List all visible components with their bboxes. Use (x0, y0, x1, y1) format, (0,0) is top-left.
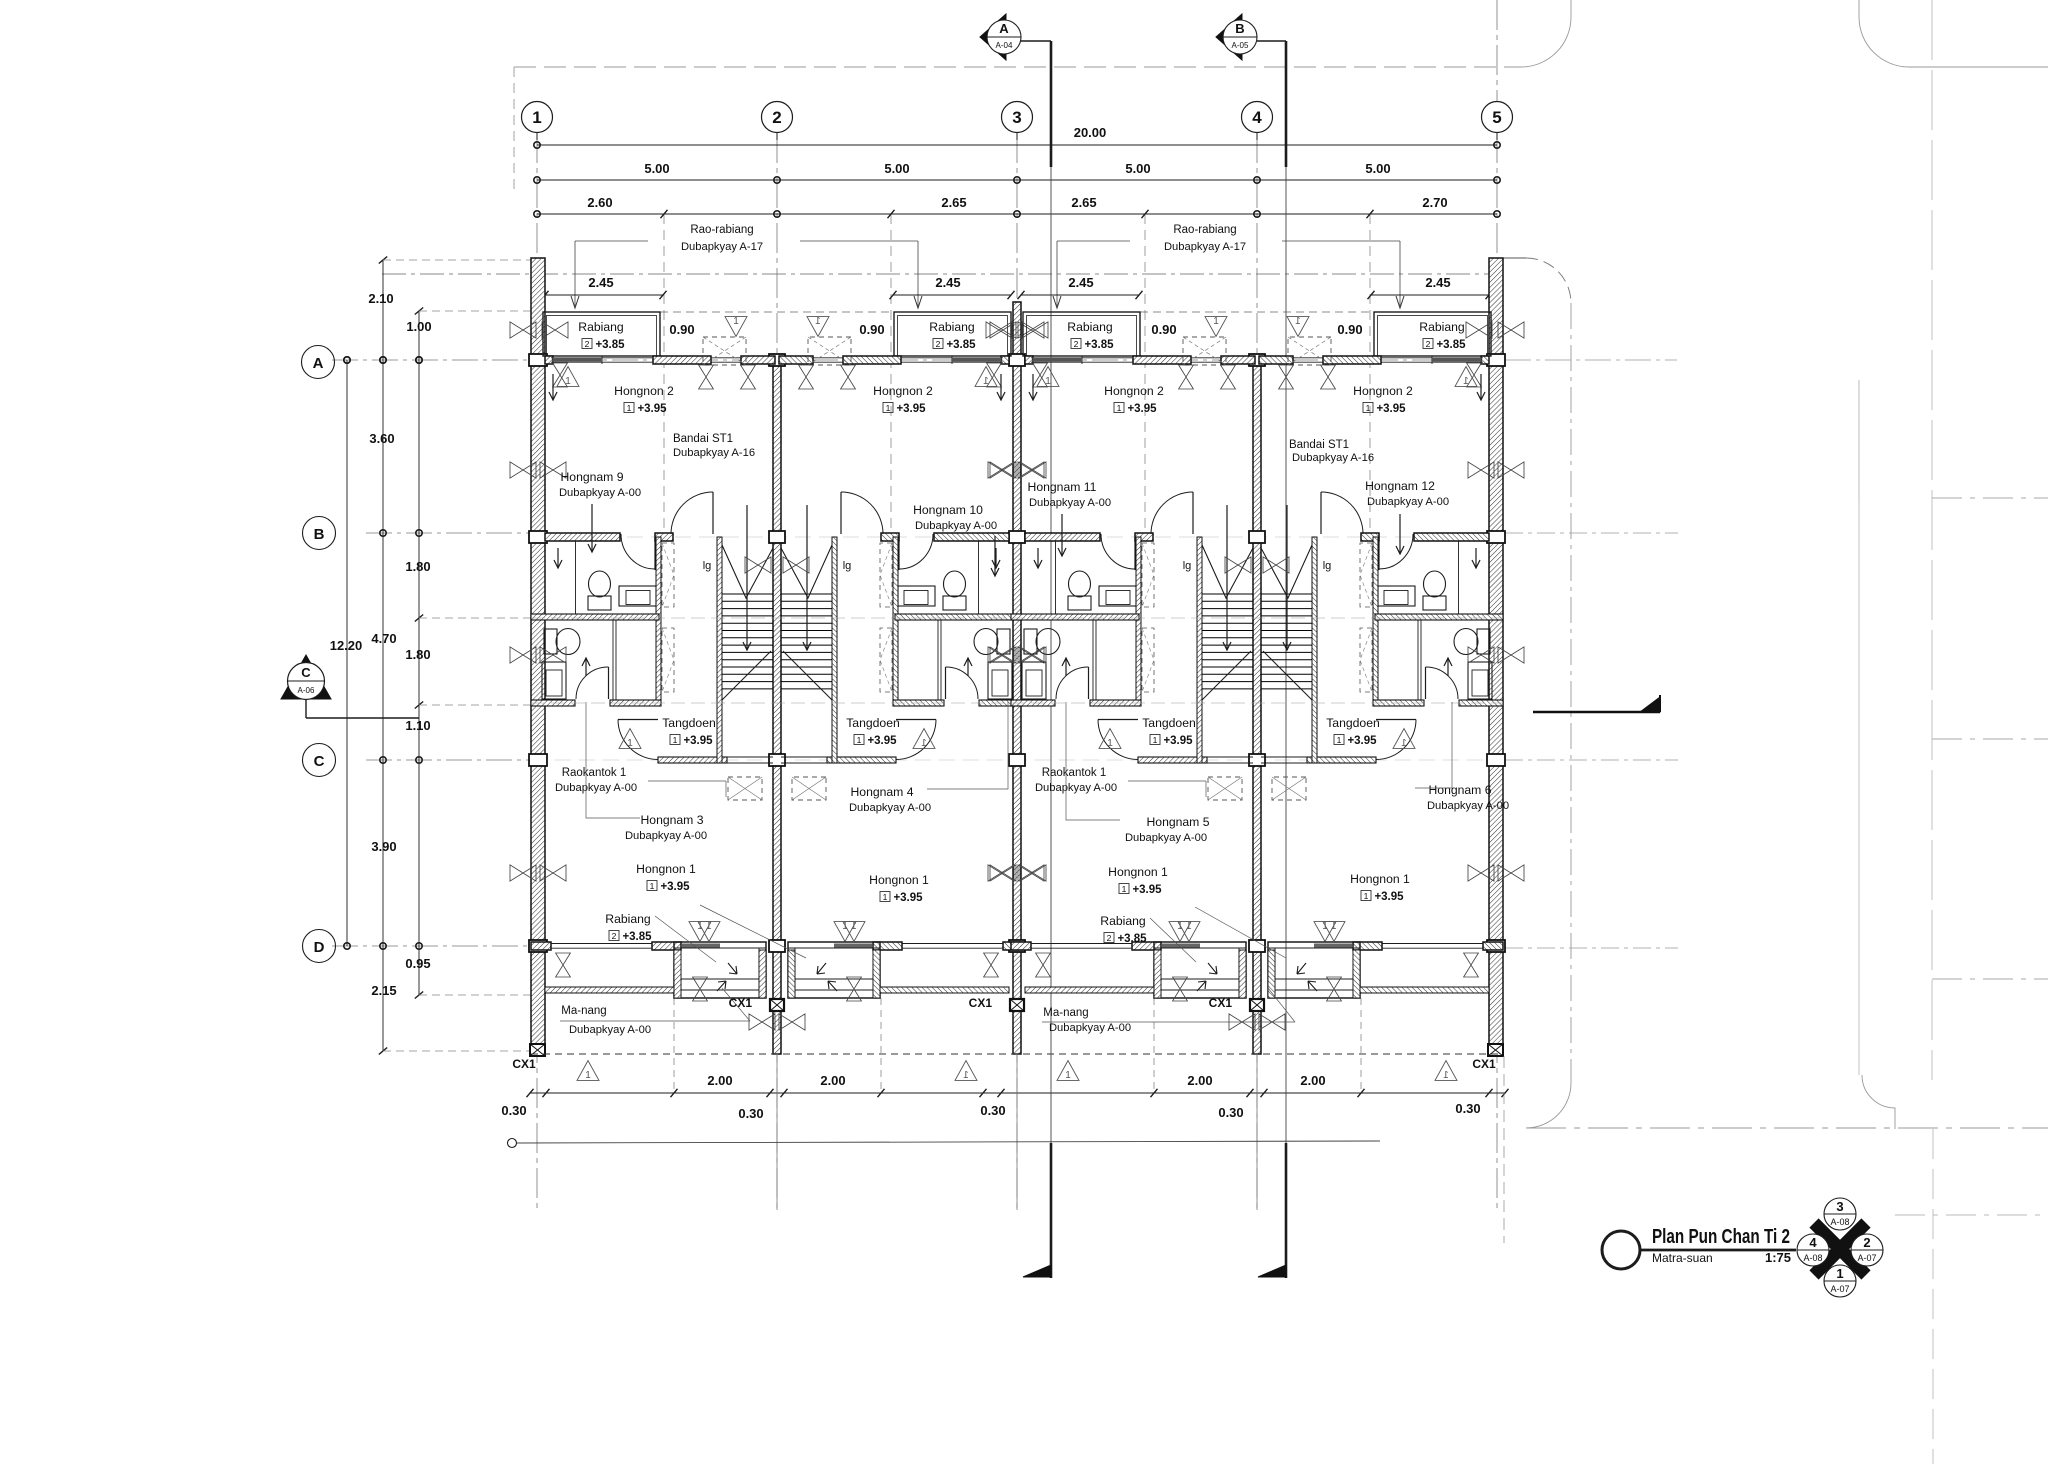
bath divider reference dashed line (531, 617, 1503, 619)
svg-text:+3.95: +3.95 (1132, 884, 1162, 896)
svg-text:Ma-nang: Ma-nang (561, 1005, 606, 1017)
unit2 stair break lines (781, 545, 832, 598)
road horizontal stubs far right (1932, 497, 2048, 499)
unit1 rear balcony (674, 942, 766, 998)
svg-text:Rabiang: Rabiang (1100, 914, 1145, 928)
unit 1 geometry (510, 312, 856, 1081)
svg-text:2.70: 2.70 (1422, 195, 1447, 210)
balcony rail dashed continuation front (660, 311, 895, 313)
unit2 stair side wall (832, 537, 837, 763)
unit1 balcony slope arrows (728, 963, 737, 974)
right wall extension below (1503, 1056, 1505, 1243)
grid bubble 3 (1002, 102, 1033, 133)
svg-text:Matra-suan: Matra-suan (1652, 1251, 1713, 1265)
kerb line right of building top (1503, 257, 1526, 259)
svg-text:1: 1 (886, 403, 891, 413)
unit1 triangle markers (557, 367, 579, 387)
svg-text:2: 2 (1863, 1235, 1870, 1250)
unit 2 geometry (mirror) (698, 312, 1044, 1081)
svg-text:0.95: 0.95 (405, 956, 430, 971)
extension dashed verticals from balconies (673, 998, 675, 1093)
svg-text:CX1: CX1 (512, 1057, 536, 1071)
unit4 stair treads (1261, 593, 1312, 595)
road vertical second far right (1931, 0, 1933, 1080)
site boundary circle and line bottom (508, 1139, 517, 1148)
svg-text:Hongnam 11: Hongnam 11 (1028, 480, 1097, 494)
unit1 lower bath fixtures (544, 629, 557, 654)
svg-text:Rabiang: Rabiang (929, 320, 974, 334)
unit3 window bowties (990, 462, 1016, 478)
unit1 corridor-bedroom1 door (618, 719, 658, 721)
svg-text:2: 2 (585, 339, 590, 349)
svg-text:4: 4 (1809, 1235, 1817, 1250)
unit1 front balcony (543, 312, 660, 356)
unit4 closet dashed doors (1360, 543, 1372, 607)
svg-text:C: C (301, 665, 311, 680)
unit4 divider wall (1375, 614, 1503, 620)
unit3 window in wall A near AC (1191, 357, 1221, 359)
svg-text:Tangdoen: Tangdoen (1326, 716, 1380, 730)
unit1 upper bath partition and fixtures (575, 541, 577, 614)
svg-text:Rao-rabiang: Rao-rabiang (1173, 224, 1236, 236)
svg-text:Hongnon 2: Hongnon 2 (614, 384, 674, 398)
svg-text:2.00: 2.00 (707, 1073, 732, 1088)
svg-text:Hongnam 10: Hongnam 10 (913, 503, 983, 517)
svg-text:1: 1 (733, 316, 739, 327)
svg-text:1: 1 (1337, 735, 1342, 745)
grid bubble 1 (522, 102, 553, 133)
svg-text:+3.95: +3.95 (637, 403, 667, 415)
unit2 wall B segments (934, 533, 1009, 541)
dimension line 20.00 (537, 144, 1497, 146)
unit3 void dashed box below stair (1208, 777, 1242, 800)
unit4 stair direction arrow (1286, 505, 1288, 650)
unit2 corridor wall segments (979, 700, 1023, 706)
unit3 partition bath-closet (1092, 620, 1094, 700)
unit3 wall A segments (1025, 356, 1033, 364)
svg-text:Hongnam 6: Hongnam 6 (1428, 783, 1491, 797)
svg-text:1.00: 1.00 (406, 319, 431, 334)
svg-text:0.90: 0.90 (669, 322, 694, 337)
unit1 stair direction arrow (746, 505, 748, 650)
unit4 AC ledge dashed box (1288, 337, 1331, 365)
unit3 balcony slope arrows (1208, 963, 1217, 974)
bath5 leader (1066, 702, 1120, 820)
section marker C (A-06) left (281, 655, 331, 699)
left dim extension dashes (383, 259, 531, 261)
svg-text:+3.85: +3.85 (1117, 933, 1147, 945)
svg-text:1: 1 (1401, 738, 1407, 749)
svg-text:Dubapkyay A-16: Dubapkyay A-16 (673, 447, 755, 459)
unit1 bath wall vertical (656, 537, 661, 702)
unit2 window bowties (1018, 462, 1044, 478)
grid line 3 (vertical center line) (1016, 133, 1018, 1210)
svg-text:12.20: 12.20 (330, 638, 363, 653)
unit1 divider wall (531, 614, 659, 620)
unit2 lower bath door arc (945, 667, 947, 699)
svg-text:5.00: 5.00 (644, 161, 669, 176)
svg-text:2: 2 (1426, 339, 1431, 349)
svg-text:0.90: 0.90 (1337, 322, 1362, 337)
svg-text:0.30: 0.30 (980, 1103, 1005, 1118)
svg-text:1.80: 1.80 (405, 647, 430, 662)
kerb vertical dash-dot right of building (1570, 303, 1572, 1083)
svg-text:Dubapkyay A-00: Dubapkyay A-00 (559, 487, 641, 499)
bath4 leader (927, 702, 1008, 789)
svg-text:Tangdoen: Tangdoen (846, 716, 900, 730)
svg-text:1: 1 (1122, 884, 1127, 894)
svg-text:B: B (1235, 21, 1244, 36)
svg-text:CX1: CX1 (729, 996, 753, 1010)
unit1 window bowties (510, 462, 536, 478)
dimension row 2.45 / 0.90 (545, 294, 663, 296)
unit4 triangle markers (1455, 367, 1477, 387)
unit2 void dashed box below stair (792, 777, 826, 800)
unit4 window in wall A (balcony door) (1381, 357, 1483, 359)
unit4 corridor wall segments (1459, 700, 1503, 706)
svg-text:1: 1 (650, 881, 655, 891)
svg-text:+3.85: +3.85 (1436, 339, 1466, 351)
unit1 void dashed box below stair (728, 777, 762, 800)
unit3 closet dashed doors (1142, 543, 1154, 607)
svg-text:2.65: 2.65 (1071, 195, 1096, 210)
unit1 bath9 door arc at wall B (654, 534, 656, 570)
svg-text:B: B (314, 526, 325, 543)
svg-text:lg: lg (843, 560, 852, 572)
svg-text:1: 1 (1186, 921, 1192, 932)
unit1 bench wall (545, 987, 674, 993)
unit1 stair side wall (717, 537, 722, 763)
unit1 AC ledge dashed box (703, 337, 746, 365)
road vertical line far right (1858, 380, 1860, 1075)
grid line 4 (vertical center line) (1256, 133, 1258, 1210)
svg-text:5.00: 5.00 (1365, 161, 1390, 176)
svg-text:Hongnam 4: Hongnam 4 (850, 785, 913, 799)
svg-text:3.90: 3.90 (371, 839, 396, 854)
unit2 bath9 door arc at wall B (898, 534, 900, 570)
svg-text:Bandai ST1: Bandai ST1 (673, 433, 733, 445)
svg-text:4.70: 4.70 (371, 631, 396, 646)
svg-text:Hongnon 1: Hongnon 1 (636, 862, 696, 876)
corridor reference dashed line (531, 702, 1503, 704)
unit1 wall D segments (531, 942, 551, 950)
unit1 bedroom ventilation arrow (552, 374, 554, 400)
unit2 balcony slope arrows (817, 963, 826, 974)
unit3 bath9 door arc at wall B (1134, 534, 1136, 570)
svg-text:1: 1 (1836, 1266, 1843, 1281)
unit2 divider wall (895, 614, 1023, 620)
svg-text:A-07: A-07 (1830, 1284, 1849, 1294)
unit3 divider wall (1011, 614, 1139, 620)
svg-text:1: 1 (706, 921, 712, 932)
svg-text:2.00: 2.00 (820, 1073, 845, 1088)
unit4 balcony slope arrows (1297, 963, 1306, 974)
svg-text:1: 1 (1213, 316, 1219, 327)
unit3 upper bath partition and fixtures (1055, 541, 1057, 614)
svg-text:3: 3 (1836, 1199, 1843, 1214)
svg-text:Dubapkyay A-00: Dubapkyay A-00 (1427, 800, 1509, 812)
svg-text:1: 1 (1463, 376, 1469, 387)
unit1 stair break lines (722, 545, 773, 598)
unit3 lower bath door arc (1088, 667, 1090, 699)
svg-text:Bandai ST1: Bandai ST1 (1289, 439, 1349, 451)
unit2 wall D segments (1003, 942, 1023, 950)
svg-text:1: 1 (627, 403, 632, 413)
svg-text:+3.95: +3.95 (1127, 403, 1157, 415)
bath11 leader arrow (1061, 514, 1063, 556)
kerb bottom-right corner arc to road (1526, 1083, 1571, 1128)
rear balcony leaders unit3 (1150, 918, 1196, 962)
grid bubble 2 (762, 102, 793, 133)
bottom dim line 2.00 row (530, 1092, 1505, 1094)
driveway mark right side (1533, 711, 1660, 713)
svg-text:1: 1 (921, 738, 927, 749)
row line B faint interior (531, 536, 1503, 538)
unit3 bedroom ventilation arrow (1032, 374, 1034, 400)
unit4 bedroom ventilation arrow (1480, 374, 1482, 400)
svg-text:0.30: 0.30 (738, 1106, 763, 1121)
unit3 stair direction arrow (1226, 505, 1228, 650)
svg-text:20.00: 20.00 (1074, 125, 1107, 140)
svg-text:1: 1 (585, 1070, 591, 1081)
left dim vertical line 12.20 (346, 360, 348, 946)
unit1 wall A segments (545, 356, 553, 364)
svg-text:2: 2 (1074, 339, 1079, 349)
unit4 stair break lines (1261, 545, 1312, 598)
svg-text:lg: lg (1183, 560, 1192, 572)
svg-text:+3.95: +3.95 (1163, 735, 1193, 747)
dimension line 5.00 row (537, 179, 1497, 181)
svg-text:+3.95: +3.95 (896, 403, 926, 415)
svg-text:1: 1 (1364, 891, 1369, 901)
unit2 lower bath fixtures (997, 629, 1010, 654)
kerb corner arc right of building (1526, 258, 1571, 303)
svg-text:2.45: 2.45 (588, 275, 613, 290)
unit3 wall B segments (1025, 533, 1100, 541)
unit4 lower bath door arc (1425, 667, 1427, 699)
svg-text:Plan Pun Chan Ti 2: Plan Pun Chan Ti 2 (1652, 1226, 1790, 1248)
row line C faint interior (531, 759, 1503, 761)
unit4 wall A segments (1481, 356, 1489, 364)
road kerb corner arc top-right (1859, 0, 2048, 67)
unit3 front balcony (1023, 312, 1140, 356)
svg-text:1: 1 (1366, 403, 1371, 413)
unit4 partition bath-closet (1420, 620, 1422, 700)
row line C dash-dot stubs (366, 759, 531, 761)
svg-text:2: 2 (936, 339, 941, 349)
unit3 corridor wall segments (1011, 700, 1055, 706)
unit3 bench wall (1025, 987, 1154, 993)
svg-text:Hongnon 2: Hongnon 2 (873, 384, 933, 398)
road line bottom right (1526, 1127, 2048, 1129)
svg-text:1: 1 (627, 738, 633, 749)
svg-text:1.80: 1.80 (405, 559, 430, 574)
left dim vertical line main (382, 260, 384, 1051)
svg-text:1: 1 (983, 376, 989, 387)
svg-text:Ma-nang: Ma-nang (1043, 1007, 1088, 1019)
left exterior wall (531, 258, 545, 1056)
unit3 window in wall A (balcony door) (1031, 357, 1133, 359)
svg-text:+3.95: +3.95 (867, 735, 897, 747)
svg-text:1: 1 (857, 735, 862, 745)
unit2 bedroom2 door arc (840, 492, 842, 534)
unit3 AC ledge dashed box (1183, 337, 1226, 365)
row bubble B (303, 517, 336, 550)
unit4 wall C segment (1307, 757, 1376, 763)
unit1 wall C segment (658, 757, 727, 763)
row line D dash-dot (332, 945, 531, 947)
unit2 window in wall A (balcony door) (901, 357, 1003, 359)
svg-text:Dubapkyay A-00: Dubapkyay A-00 (1035, 782, 1117, 794)
unit 3 geometry (990, 312, 1336, 1081)
svg-text:lg: lg (703, 560, 712, 572)
row bubble A (302, 346, 335, 379)
section line B bottom with flag (1285, 1143, 1288, 1278)
svg-text:2.65: 2.65 (941, 195, 966, 210)
svg-text:Rao-rabiang: Rao-rabiang (690, 224, 753, 236)
svg-text:+3.85: +3.85 (1084, 339, 1114, 351)
party wall grid 3 (1013, 302, 1021, 1054)
grid line 5 (vertical center line) (1496, 133, 1498, 1210)
unit2 AC ledge dashed box (808, 337, 851, 365)
bath6 leader (1415, 702, 1452, 788)
unit3 wall C segment (1138, 757, 1207, 763)
svg-text:2: 2 (612, 931, 617, 941)
bath3 leader (586, 702, 640, 818)
svg-text:A-08: A-08 (1803, 1253, 1822, 1263)
unit1 lower bath door arc (608, 667, 610, 699)
svg-text:2: 2 (1107, 933, 1112, 943)
unit2 upper bath partition and fixtures (978, 541, 980, 614)
left dim vertical line inner (418, 311, 420, 995)
svg-text:1:75: 1:75 (1765, 1250, 1791, 1265)
section line A bottom with flag (1050, 1143, 1053, 1278)
svg-text:Dubapkyay A-00: Dubapkyay A-00 (569, 1024, 651, 1036)
svg-text:2.45: 2.45 (935, 275, 960, 290)
property dash-dot line above plan (382, 273, 1500, 275)
svg-text:+3.85: +3.85 (946, 339, 976, 351)
grid bubble 4 (1242, 102, 1273, 133)
unit1 wall B segments (545, 533, 620, 541)
svg-text:0.30: 0.30 (1455, 1101, 1480, 1116)
svg-text:Tangdoen: Tangdoen (662, 716, 716, 730)
svg-text:A-05: A-05 (1232, 41, 1249, 50)
unit4 void dashed box below stair (1272, 777, 1306, 800)
svg-text:2: 2 (772, 108, 781, 127)
svg-text:1: 1 (1065, 1070, 1071, 1081)
svg-text:CX1: CX1 (1472, 1057, 1496, 1071)
unit2 stair treads (781, 593, 832, 595)
grid bubble 5 (1482, 102, 1513, 133)
svg-text:1: 1 (1045, 376, 1051, 387)
key circle 1 (1824, 1265, 1856, 1297)
unit4 window in wall A near AC (1293, 357, 1323, 359)
unit4 bedroom2 door arc (1320, 492, 1322, 534)
svg-text:5.00: 5.00 (1125, 161, 1150, 176)
bath10 leader arrow (994, 536, 996, 576)
CX1 corner columns bottom (530, 1044, 545, 1056)
row line A dash-dot (332, 359, 1505, 361)
svg-text:Dubapkyay A-00: Dubapkyay A-00 (1029, 497, 1111, 509)
svg-text:1: 1 (963, 1070, 969, 1081)
key circle 2 (1851, 1234, 1883, 1266)
unit3 bedroom2 door arc (1192, 492, 1194, 534)
unit3 corridor-bedroom1 door (1098, 719, 1138, 721)
unit1 stair treads (722, 593, 773, 595)
unit3 lower bath fixtures (1024, 629, 1037, 654)
bath12 leader arrow (1399, 514, 1401, 554)
unit3 bath wall vertical (1136, 537, 1141, 702)
svg-text:A-06: A-06 (298, 686, 315, 695)
svg-text:lg: lg (1323, 560, 1332, 572)
svg-text:D: D (314, 939, 325, 956)
grid line 2 (vertical center line) (776, 133, 778, 1210)
svg-text:3: 3 (1012, 108, 1021, 127)
svg-text:Hongnon 2: Hongnon 2 (1104, 384, 1164, 398)
unit3 stair break lines (1202, 545, 1253, 598)
svg-text:Dubapkyay A-00: Dubapkyay A-00 (625, 830, 707, 842)
svg-text:+3.95: +3.95 (893, 892, 923, 904)
title line (1641, 1249, 1796, 1252)
unit2 triangle markers (975, 367, 997, 387)
svg-text:A: A (313, 355, 324, 372)
svg-text:A-08: A-08 (1830, 1217, 1849, 1227)
section line B through plan (1285, 167, 1287, 1143)
svg-text:1: 1 (1153, 735, 1158, 745)
road kerb corner arc top-left of intersection (1521, 0, 1571, 67)
unit4 front balcony (1374, 312, 1491, 356)
svg-text:Raokantok 1: Raokantok 1 (1042, 767, 1107, 779)
unit2 stair direction arrow (806, 505, 808, 650)
svg-text:5: 5 (1492, 108, 1501, 127)
rear balcony leaders unit1 (655, 916, 716, 962)
unit4 bath9 door arc at wall B (1378, 534, 1380, 570)
svg-text:1: 1 (1443, 1070, 1449, 1081)
road corner arc bottom right vertical (1862, 1075, 1895, 1129)
road kerb top dashed line (514, 66, 1521, 68)
unit1 partition bath-closet (612, 620, 614, 700)
svg-text:0.30: 0.30 (1218, 1105, 1243, 1120)
svg-text:C: C (314, 753, 325, 770)
unit3 triangle markers (1037, 367, 1059, 387)
secondary dashed setout lines (663, 214, 665, 535)
svg-text:Hongnam 12: Hongnam 12 (1365, 479, 1435, 493)
svg-text:+3.85: +3.85 (622, 931, 652, 943)
svg-text:CX1: CX1 (1209, 996, 1233, 1010)
svg-text:2.10: 2.10 (368, 291, 393, 306)
svg-text:Dubapkyay A-00: Dubapkyay A-00 (555, 782, 637, 794)
svg-text:0.90: 0.90 (859, 322, 884, 337)
column capitals on exterior walls (529, 354, 547, 366)
svg-text:A-07: A-07 (1857, 1253, 1876, 1263)
svg-text:Rabiang: Rabiang (1419, 320, 1464, 334)
unit4 wall B segments (1414, 533, 1489, 541)
svg-text:2.45: 2.45 (1068, 275, 1093, 290)
svg-text:Hongnon 1: Hongnon 1 (1350, 872, 1410, 886)
unit2 front balcony (894, 312, 1011, 356)
svg-text:2.45: 2.45 (1425, 275, 1450, 290)
svg-text:A: A (999, 21, 1009, 36)
grid line 1 (vertical center line) (536, 133, 538, 1210)
svg-text:3.60: 3.60 (369, 431, 394, 446)
party wall grid 2 (773, 356, 781, 1054)
svg-text:+3.95: +3.95 (1376, 403, 1406, 415)
svg-text:1.10: 1.10 (405, 718, 430, 733)
party wall grid 4 (1253, 356, 1261, 1054)
svg-text:A-04: A-04 (996, 41, 1013, 50)
svg-text:Tangdoen: Tangdoen (1142, 716, 1196, 730)
unit4 rear balcony (1268, 942, 1360, 998)
